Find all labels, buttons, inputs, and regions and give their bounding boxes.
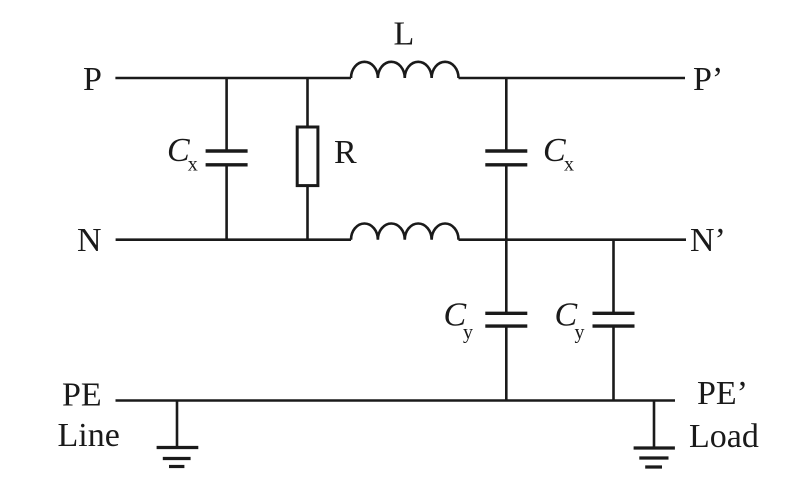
svg-text:x: x: [188, 153, 198, 175]
svg-text:R: R: [334, 134, 357, 171]
wire PE line: [116, 399, 676, 402]
svg-text:y: y: [463, 322, 473, 344]
svg-text:P: P: [83, 61, 102, 98]
wire Cx1 branch lower: [225, 166, 228, 240]
wire R branch upper: [306, 78, 309, 127]
ground right bars: [634, 448, 675, 467]
wire Cx2 branch upper: [505, 78, 508, 150]
wire Cy2 branch upper: [612, 240, 615, 313]
inductor L bottom winding: [351, 223, 459, 239]
wire Cy1 branch lower: [505, 328, 508, 401]
capacitor C_x right plates: [485, 151, 527, 165]
ground left stem: [176, 401, 179, 448]
svg-text:Load: Load: [689, 418, 759, 455]
svg-text:x: x: [564, 153, 574, 175]
svg-text:N: N: [77, 222, 102, 259]
wire Cy2 branch lower: [612, 328, 615, 401]
capacitor C_x left plates: [206, 151, 248, 165]
wire N line right segment: [459, 238, 687, 241]
svg-text:y: y: [575, 322, 585, 344]
svg-text:C: C: [167, 132, 190, 169]
wire Cx2 branch middle: [505, 166, 508, 312]
capacitor C_y left plates: [485, 313, 527, 326]
svg-text:PE’: PE’: [697, 375, 748, 412]
svg-text:PE: PE: [62, 377, 102, 414]
wire P line left segment: [115, 77, 351, 80]
svg-text:C: C: [543, 132, 566, 169]
wire N line left segment: [116, 238, 351, 241]
svg-text:L: L: [394, 16, 415, 53]
inductor L top winding: [351, 62, 459, 78]
ground left bars: [157, 448, 199, 467]
wire P line right segment: [459, 77, 686, 80]
svg-text:Line: Line: [58, 417, 120, 454]
svg-text:N’: N’: [690, 222, 726, 259]
svg-text:P’: P’: [693, 61, 723, 98]
capacitor C_y right plates: [593, 313, 635, 326]
ground right stem: [653, 401, 656, 448]
wire Cx1 branch upper: [225, 78, 228, 150]
resistor R body: [297, 127, 318, 186]
wire R branch lower: [306, 186, 309, 240]
